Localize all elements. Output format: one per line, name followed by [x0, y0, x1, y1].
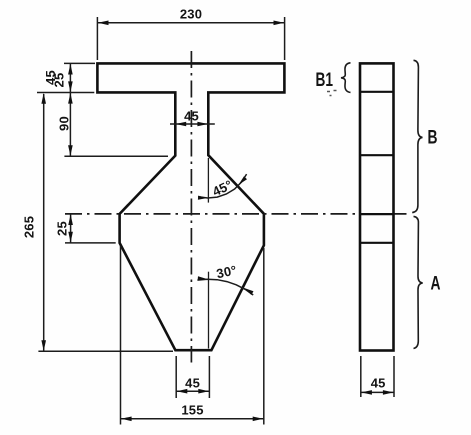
label 30deg (rot): [215, 262, 238, 281]
arrow 30deg left end: [198, 276, 208, 280]
dim 155 ext left: [120, 246, 122, 425]
dim 25 arrow up: [68, 214, 73, 225]
dim 155 line: [121, 418, 264, 420]
ext line bottom flat left: [38, 350, 173, 352]
dim 230 ext right: [284, 17, 286, 60]
side division 3: [360, 213, 394, 215]
dim 45 side line: [361, 391, 394, 393]
dim 45/25 arrow up: [68, 64, 73, 75]
arc 30deg: [197, 279, 253, 295]
dim 25 arrow down: [68, 232, 73, 243]
ext line stem base left: [64, 155, 168, 157]
dim 155 ext right: [263, 248, 265, 425]
arc 45deg: [198, 174, 247, 198]
dim 45 stem arrow left: [176, 122, 187, 127]
ext line 30deg vertical: [208, 272, 210, 349]
dim 25 mid line: [70, 214, 72, 243]
svg-text:45: 45: [184, 109, 199, 124]
dim 45/25 arrow down: [68, 81, 73, 92]
side division 4: [360, 242, 394, 244]
dim 45 bottom ext left: [175, 356, 177, 398]
svg-text:45: 45: [371, 375, 386, 390]
dim 265 line: [43, 94, 45, 351]
arrow 45deg right end: [238, 176, 247, 185]
brace A: [414, 216, 423, 348]
dim 155 arrow right: [253, 417, 264, 422]
svg-text:155: 155: [181, 403, 203, 418]
dim 90 line: [69, 93, 71, 157]
svg-text:90: 90: [56, 116, 71, 131]
svg-text:A: A: [431, 274, 441, 295]
dim 155 arrow left: [121, 417, 132, 422]
horizontal centerline: [65, 213, 411, 215]
label 45deg (rot): [210, 177, 235, 199]
side division 2: [360, 154, 394, 156]
dim 265 arrow up: [41, 93, 46, 104]
svg-text:230: 230: [180, 6, 202, 21]
dim 45 side arrow left: [361, 390, 372, 395]
dim 45 bottom arrow right: [198, 389, 209, 394]
arrow 30deg right end: [244, 288, 254, 295]
dim 230 arrow right: [274, 21, 285, 26]
brace B1: [341, 63, 351, 93]
dim 45 bottom ext right: [208, 356, 210, 398]
svg-text:45: 45: [185, 376, 200, 391]
dim 90 arrow down: [68, 145, 73, 156]
ext line T-bar bottom left: [37, 92, 94, 94]
dim 90 arrow up: [68, 93, 73, 104]
dim 45 side ext left: [360, 356, 362, 397]
dim 45 stem line: [170, 123, 215, 125]
arrow 45deg left end: [198, 196, 208, 200]
brace B: [412, 60, 422, 212]
dim 45 side ext right: [393, 356, 395, 397]
side view rect: [360, 63, 394, 350]
front view outline: [97, 63, 284, 350]
ext line 45deg vertical: [207, 158, 209, 203]
dim 230 ext left: [96, 17, 98, 60]
dim 45 bottom line: [176, 390, 209, 392]
svg-text:25: 25: [51, 73, 66, 88]
side division 1: [360, 91, 394, 93]
dim 45/25 line: [69, 63, 71, 92]
svg-text:265: 265: [21, 216, 36, 238]
svg-text:30°: 30°: [215, 262, 238, 281]
svg-text:25: 25: [55, 221, 70, 236]
ext line T-bar top left: [64, 62, 95, 64]
vertical centerline: [190, 51, 192, 363]
dim 45 stem arrow right: [197, 122, 208, 127]
svg-text:B1: B1: [316, 70, 334, 91]
dim 265 arrow down: [41, 340, 46, 351]
dim 230 line: [97, 22, 284, 24]
dim 230 arrow left: [98, 21, 109, 26]
svg-text:B: B: [428, 128, 438, 149]
dim 45 side arrow right: [383, 390, 394, 395]
dim 45 bottom arrow left: [177, 389, 188, 394]
B1 dots: [327, 91, 337, 96]
ext line hexagon left corner: [65, 242, 116, 244]
